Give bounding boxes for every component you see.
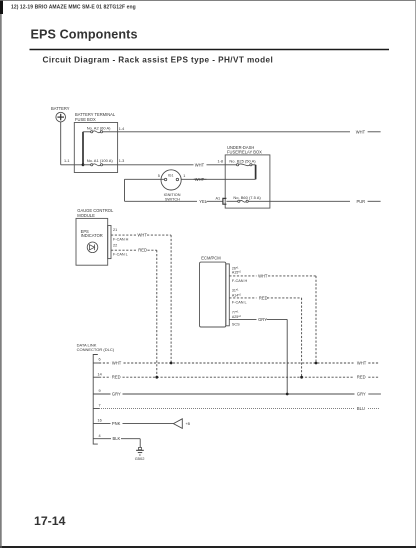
- wire RED F-CAN L bus from DLC pin 14: [99, 376, 379, 378]
- wire WHT F-CAN H from gauge pin 21: [111, 235, 171, 363]
- wire ignition switch pin 5 output: [125, 179, 165, 201]
- junction ECM SCS: [286, 393, 289, 396]
- svg-text:+B: +B: [186, 422, 191, 426]
- svg-text:MODULE: MODULE: [77, 213, 95, 218]
- under-dash fuse/relay box: [225, 145, 270, 208]
- svg-text:SCS: SCS: [232, 323, 240, 327]
- data link connector DLC: [77, 342, 115, 444]
- junction ECM F-CAN L: [300, 376, 303, 379]
- pin 6 stub: [93, 362, 99, 364]
- ignition switch name label: [164, 193, 181, 202]
- wire RED F-CAN L from ECM: [229, 298, 301, 377]
- svg-text:9: 9: [99, 389, 101, 393]
- svg-text:17-14: 17-14: [34, 514, 66, 528]
- bus bar fuse B25 output: [255, 165, 257, 180]
- wire PUR from fuse B60: [270, 200, 381, 202]
- svg-text:F-CAN H: F-CAN H: [113, 237, 129, 241]
- junction bus bar to battery feed: [82, 163, 85, 166]
- wire GRY SCS from DLC pin 9: [93, 393, 381, 395]
- fuse A2 60A: [83, 126, 118, 133]
- ignition switch: [161, 170, 181, 190]
- svg-text:16: 16: [98, 419, 102, 423]
- wire WHT to ignition switch terminal 1: [179, 178, 226, 180]
- svg-text:G502: G502: [135, 456, 146, 461]
- svg-text:GRY: GRY: [357, 392, 366, 397]
- svg-text:31*¹: 31*¹: [232, 289, 239, 293]
- gauge module connector: [108, 226, 111, 259]
- svg-text:6: 6: [99, 358, 101, 362]
- EPS indicator lamp: [87, 242, 98, 253]
- wire WHT fuse A1 to under-dash fuse box: [118, 164, 226, 166]
- bus bar in fuse box: [82, 132, 84, 165]
- svg-text:22: 22: [113, 243, 117, 247]
- svg-text:WHT: WHT: [258, 273, 268, 278]
- off-page arrow +B: [173, 419, 182, 429]
- wire YEL to under-dash box terminal A1: [125, 200, 223, 202]
- svg-text:F-CAN L: F-CAN L: [232, 301, 247, 305]
- battery terminal fuse box: [74, 112, 117, 173]
- svg-text:BLK: BLK: [113, 436, 121, 441]
- svg-text:No. B60 (7.5 A): No. B60 (7.5 A): [233, 195, 261, 200]
- wire BLK ground lead from DLC pin 4: [93, 439, 140, 448]
- ECM/PCM: [200, 256, 230, 327]
- svg-text:77*¹: 77*¹: [232, 310, 239, 314]
- wire WHT from fuse A2 to EPS control unit: [118, 131, 381, 133]
- fuse B60 7.5A: [226, 195, 270, 203]
- svg-text:No. A1 (100 A): No. A1 (100 A): [87, 158, 114, 163]
- svg-text:INDICATOR: INDICATOR: [81, 233, 103, 238]
- svg-text:Circuit Diagram - Rack assist: Circuit Diagram - Rack assist EPS type -…: [43, 55, 274, 64]
- svg-text:WHT: WHT: [356, 129, 366, 134]
- wire WHT F-CAN H bus from DLC pin 6: [99, 362, 379, 364]
- svg-text:RED: RED: [112, 375, 121, 380]
- svg-text:No. A2 (60 A): No. A2 (60 A): [87, 126, 111, 131]
- fuse B25 50A: [225, 158, 256, 166]
- svg-text:FUSE/RELAY BOX: FUSE/RELAY BOX: [227, 150, 262, 155]
- svg-text:IG1: IG1: [168, 173, 174, 177]
- pin 14 stub: [93, 376, 99, 378]
- svg-text:WHT: WHT: [195, 177, 205, 182]
- svg-text:YEL: YEL: [199, 199, 207, 204]
- svg-text:IGNITION: IGNITION: [164, 193, 181, 197]
- svg-text:BLU: BLU: [357, 406, 365, 411]
- wire battery positive lead down: [60, 122, 62, 165]
- battery: [51, 106, 70, 122]
- connector socket A1: [223, 198, 227, 204]
- wire battery to fuse box terminal 1-1: [61, 164, 83, 166]
- svg-text:1-4: 1-4: [119, 127, 125, 131]
- svg-text:WHT: WHT: [138, 233, 148, 238]
- svg-text:EPS Components: EPS Components: [31, 27, 138, 41]
- svg-text:CONNECTOR (DLC): CONNECTOR (DLC): [77, 347, 115, 352]
- wire RED F-CAN L from gauge pin 22: [111, 250, 157, 377]
- svg-text:14: 14: [98, 372, 102, 376]
- svg-text:A14*²: A14*²: [232, 293, 242, 297]
- svg-text:RED: RED: [138, 248, 147, 253]
- svg-text:F-CAN L: F-CAN L: [113, 252, 128, 256]
- svg-text:5: 5: [158, 174, 160, 178]
- title rule: [30, 49, 390, 51]
- svg-text:21: 21: [113, 228, 117, 232]
- wire fuse B25 output out of box: [225, 178, 255, 180]
- svg-text:No. B25 (50 A): No. B25 (50 A): [229, 158, 256, 163]
- svg-text:4: 4: [99, 434, 101, 438]
- svg-text:A25*²: A25*²: [232, 315, 242, 319]
- pin 7 stub: [93, 408, 99, 410]
- svg-text:RED: RED: [357, 375, 366, 380]
- svg-text:WHT: WHT: [112, 361, 122, 366]
- svg-text:GRY: GRY: [258, 317, 267, 322]
- svg-text:1-3: 1-3: [119, 159, 125, 163]
- svg-text:A15*²: A15*²: [232, 271, 242, 275]
- junction gauge F-CAN H: [170, 362, 173, 365]
- wire PNK power feed from DLC pin 16: [93, 423, 173, 425]
- svg-text:1-8: 1-8: [218, 160, 224, 164]
- ground G502: [135, 447, 146, 461]
- svg-text:WHT: WHT: [195, 162, 205, 167]
- svg-text:1-1: 1-1: [64, 159, 70, 163]
- svg-text:BATTERY: BATTERY: [51, 106, 70, 111]
- svg-text:RED: RED: [259, 295, 268, 300]
- junction gauge F-CAN L: [155, 376, 158, 379]
- svg-text:12) 12-19 BRIO AMAZE MMC SM-E: 12) 12-19 BRIO AMAZE MMC SM-E 01 82TG12F…: [11, 4, 136, 10]
- svg-text:1: 1: [183, 174, 185, 178]
- svg-text:PUR: PUR: [357, 199, 366, 204]
- svg-text:WHT: WHT: [357, 361, 367, 366]
- svg-text:A1: A1: [216, 196, 221, 200]
- svg-text:FUSE BOX: FUSE BOX: [75, 117, 96, 122]
- svg-text:7: 7: [99, 404, 101, 408]
- svg-text:GRY: GRY: [112, 392, 121, 397]
- wire BLU K-line from DLC pin 7: [99, 408, 379, 410]
- svg-text:PNK: PNK: [112, 421, 121, 426]
- svg-text:ECM/PCM: ECM/PCM: [201, 256, 221, 261]
- wire GRY SCS from ECM: [229, 319, 287, 394]
- wire WHT F-CAN H from ECM: [229, 276, 316, 363]
- junction ECM F-CAN H: [315, 362, 318, 365]
- gauge control module: [76, 208, 114, 265]
- fuse A1 100A: [83, 158, 118, 166]
- svg-text:F-CAN H: F-CAN H: [232, 279, 248, 283]
